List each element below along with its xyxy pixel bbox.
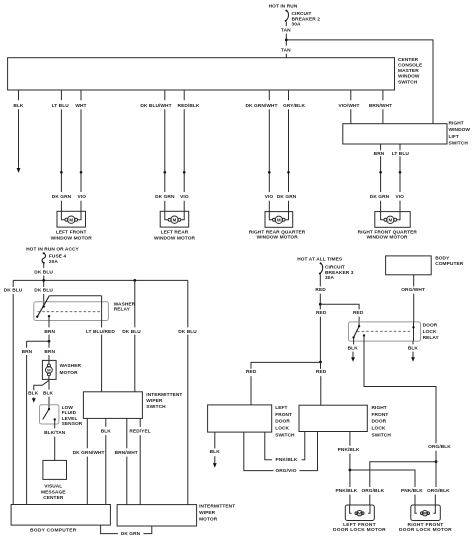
wire DK GRN/WHT wiper switch to body computer <box>73 418 105 504</box>
svg-text:PNK/BLK: PNK/BLK <box>276 457 298 463</box>
wire WHT / VIO to left front window motor <box>75 90 86 211</box>
wire PNK/BLK right switch to motors <box>335 432 423 506</box>
door lock relay output contact <box>363 334 365 336</box>
wire TAN to right window lift switch <box>286 40 433 124</box>
svg-text:SWITCH: SWITCH <box>398 79 418 85</box>
svg-text:DOOR LOCK MOTOR: DOOR LOCK MOTOR <box>333 527 386 533</box>
svg-text:30A: 30A <box>325 275 334 281</box>
svg-text:PNK/BLK: PNK/BLK <box>335 488 357 494</box>
svg-text:DK BLU: DK BLU <box>34 287 53 293</box>
motor: intermittent wiper motor box <box>117 505 197 526</box>
svg-text:LT BLU: LT BLU <box>52 103 70 109</box>
svg-text:LEFT: LEFT <box>275 405 287 411</box>
svg-text:DK BLU: DK BLU <box>4 287 23 293</box>
node HOT IN RUN label <box>269 4 298 10</box>
svg-text:RED: RED <box>353 310 364 316</box>
wire DK GRN/WHT / VIO to right rear quarter window motor <box>246 90 278 212</box>
svg-text:CIRCUIT: CIRCUIT <box>325 264 345 270</box>
circuit breaker 2 value label <box>292 11 321 27</box>
svg-text:WIPER: WIPER <box>199 510 216 516</box>
svg-text:ORG/BLK: ORG/BLK <box>361 488 384 494</box>
svg-text:WINDOW MOTOR: WINDOW MOTOR <box>257 235 299 241</box>
motor: left front door lock motor <box>345 505 374 521</box>
label washer relay <box>114 301 136 312</box>
washer relay dashed linkage <box>38 311 102 313</box>
svg-text:RED/BLK: RED/BLK <box>178 103 200 109</box>
svg-text:BODY COMPUTER: BODY COMPUTER <box>30 528 77 534</box>
svg-text:MOTOR: MOTOR <box>60 370 79 376</box>
svg-text:DOOR: DOOR <box>372 419 387 425</box>
svg-text:DOOR LOCK MOTOR: DOOR LOCK MOTOR <box>399 527 452 533</box>
svg-text:SWITCH: SWITCH <box>146 404 166 410</box>
svg-text:INTERMITTENT: INTERMITTENT <box>146 392 182 398</box>
svg-text:FUSE 4: FUSE 4 <box>49 254 67 260</box>
svg-text:LEFT FRONT: LEFT FRONT <box>56 230 87 236</box>
svg-text:TAN: TAN <box>281 27 291 33</box>
svg-text:M: M <box>388 218 392 223</box>
svg-text:SWITCH: SWITCH <box>372 432 392 438</box>
wire BLK wiper switch to body computer <box>101 418 112 504</box>
wire BLK washer motor to ground <box>28 379 49 398</box>
wire GRY/BLK / DK GRN to right rear quarter window motor <box>277 90 306 212</box>
svg-text:M: M <box>277 218 281 223</box>
wire BRN / DK GRN to right front quarter motor <box>370 144 390 212</box>
junction RED splice 1 <box>319 303 322 306</box>
switch: left front door lock switch box <box>208 405 272 432</box>
circuit breaker 2 symbol <box>285 10 289 22</box>
svg-text:RIGHT: RIGHT <box>372 405 387 411</box>
junction BRN splice <box>48 340 51 343</box>
svg-text:BLK: BLK <box>348 346 359 352</box>
svg-text:WINDOW: WINDOW <box>449 127 471 133</box>
svg-text:RED: RED <box>316 369 327 375</box>
svg-text:WINDOW: WINDOW <box>398 74 420 80</box>
svg-text:TAN: TAN <box>281 48 291 54</box>
svg-text:VIO: VIO <box>265 194 274 200</box>
svg-text:RED: RED <box>246 369 257 375</box>
svg-text:BRN: BRN <box>44 329 55 335</box>
wire RED to left front door lock switch <box>246 362 320 405</box>
wire BRN to washer motor <box>44 341 55 360</box>
switch: right window lift switch box <box>343 124 447 144</box>
wire LT BLU / VIO to right front quarter motor <box>392 144 410 212</box>
svg-text:BLK: BLK <box>28 391 39 397</box>
wire ORG/BLK to right door motor <box>427 462 450 505</box>
svg-text:BRN/WHT: BRN/WHT <box>115 450 138 456</box>
switch: intermittent wiper switch box <box>83 392 142 419</box>
junction ORG/BLK splice <box>435 460 438 463</box>
svg-text:LT BLU/RED: LT BLU/RED <box>86 329 115 335</box>
junction RED splice 2 <box>319 361 322 364</box>
wire RED to door lock relay <box>320 304 364 326</box>
motor: right front door lock motor <box>411 505 441 521</box>
svg-text:BLK: BLK <box>43 391 54 397</box>
svg-text:BRN: BRN <box>44 349 55 355</box>
motor M3 right rear quarter window motor <box>265 212 293 228</box>
wire DK BLU branch to wiper switch <box>122 280 141 391</box>
label body computer top right <box>435 255 464 266</box>
motor M2 left rear window motor <box>160 211 189 227</box>
door lock relay contact arm <box>352 325 360 339</box>
svg-text:DK GRN/WHT: DK GRN/WHT <box>246 103 278 109</box>
door lock relay dashed linkage <box>357 330 411 332</box>
svg-text:FRONT: FRONT <box>372 412 389 418</box>
wire DK BLU fuse to bus <box>34 264 53 281</box>
svg-text:DK GRN: DK GRN <box>370 194 390 200</box>
wire RED to right front door lock switch <box>316 362 327 405</box>
junction dk blu bus branch <box>133 279 136 282</box>
svg-text:M: M <box>173 217 177 222</box>
wire ORG/VIO jog between switches <box>244 432 318 475</box>
svg-text:RELAY: RELAY <box>423 335 440 341</box>
svg-text:ORG/BLK: ORG/BLK <box>427 488 450 494</box>
svg-text:VIO: VIO <box>395 194 404 200</box>
svg-text:BLK: BLK <box>210 449 221 455</box>
wire BLK washer motor to sensor <box>43 379 54 404</box>
wire DK BLU bus horizontal <box>13 279 188 281</box>
sensor: low fluid level sensor box <box>40 405 59 424</box>
svg-text:BLK: BLK <box>13 103 24 109</box>
label left front door lock switch <box>275 405 295 439</box>
svg-text:FRONT: FRONT <box>275 412 292 418</box>
label right front door lock motor <box>399 522 452 533</box>
svg-text:DK GRN: DK GRN <box>121 531 141 537</box>
wire DK BLU left drop to body computer <box>4 280 23 504</box>
label visual message center <box>41 484 66 501</box>
label center console master window switch <box>398 57 423 85</box>
svg-text:MESSAGE: MESSAGE <box>41 489 66 495</box>
label right front quarter window motor <box>358 229 418 240</box>
svg-text:DK BLU: DK BLU <box>178 329 197 335</box>
svg-text:RELAY: RELAY <box>114 307 131 313</box>
svg-text:LOW: LOW <box>62 405 74 411</box>
wire BRN/WHT wiper switch to wiper motor <box>115 418 138 504</box>
svg-text:DK GRN: DK GRN <box>277 194 297 200</box>
svg-text:LT BLU: LT BLU <box>392 151 410 157</box>
svg-text:WINDOW MOTOR: WINDOW MOTOR <box>366 235 408 241</box>
fuse 4 symbol <box>42 252 46 264</box>
svg-text:RED: RED <box>316 310 327 316</box>
wire ORG/BLK branch to left door motor <box>361 462 436 505</box>
svg-text:RIGHT FRONT: RIGHT FRONT <box>407 522 443 528</box>
svg-text:SWITCH: SWITCH <box>449 140 469 146</box>
wire DK BLU into washer relay <box>34 280 53 306</box>
svg-text:CONSOLE: CONSOLE <box>398 63 423 69</box>
svg-text:LIFT: LIFT <box>449 134 459 140</box>
svg-text:M: M <box>358 512 361 516</box>
svg-text:BODY: BODY <box>435 255 450 261</box>
svg-text:CIRCUIT: CIRCUIT <box>292 11 312 17</box>
svg-text:BLK: BLK <box>101 429 112 435</box>
svg-text:DK BLU: DK BLU <box>34 270 53 276</box>
svg-text:RIGHT FRONT QUARTER: RIGHT FRONT QUARTER <box>358 229 418 235</box>
svg-text:HOT IN RUN OR ACCY: HOT IN RUN OR ACCY <box>26 246 79 252</box>
svg-text:RED/YEL: RED/YEL <box>129 429 150 435</box>
svg-text:SWITCH: SWITCH <box>275 433 295 439</box>
junction TAN bus <box>285 39 288 42</box>
svg-text:CENTER: CENTER <box>43 495 64 501</box>
wire TAN breaker2 to master switch <box>281 22 291 58</box>
label washer motor <box>60 363 82 376</box>
label right rear quarter window motor <box>249 229 306 240</box>
svg-text:RIGHT REAR QUARTER: RIGHT REAR QUARTER <box>249 229 306 235</box>
svg-text:VIO: VIO <box>78 194 87 200</box>
label intermittent wiper motor <box>199 504 235 523</box>
label left front door lock motor <box>333 522 386 533</box>
label left front window motor <box>51 230 93 242</box>
motor M1 left front window motor <box>57 211 86 227</box>
ground arrow master switch BLK <box>17 168 21 173</box>
wire BRN branch horizontal <box>27 340 49 342</box>
svg-text:RIGHT: RIGHT <box>449 121 464 127</box>
svg-text:WASHER: WASHER <box>114 301 136 307</box>
label door lock relay <box>423 323 440 342</box>
svg-text:WINDOW MOTOR: WINDOW MOTOR <box>51 235 93 241</box>
svg-text:DOOR: DOOR <box>423 323 438 329</box>
wire BLK from master switch <box>13 90 24 168</box>
svg-text:LOCK: LOCK <box>275 426 289 432</box>
switch: right front door lock switch box <box>299 405 367 431</box>
ground arrow washer motor <box>32 398 36 403</box>
washer relay contact arm <box>36 296 49 318</box>
wire RED/YEL wiper switch to wiper motor <box>129 418 150 504</box>
wire RED/BLK / VIO to left rear window motor <box>178 90 200 211</box>
svg-text:BREAKER 2: BREAKER 2 <box>292 16 321 22</box>
svg-text:DOOR: DOOR <box>275 419 290 425</box>
svg-text:M: M <box>424 512 427 516</box>
svg-text:30A: 30A <box>292 22 301 28</box>
wire DK GRN body computer to wiper motor <box>101 525 152 537</box>
svg-text:CENTER: CENTER <box>398 57 419 63</box>
svg-text:HOT AT ALL TIMES: HOT AT ALL TIMES <box>297 256 343 262</box>
svg-text:COMPUTER: COMPUTER <box>435 261 464 267</box>
svg-text:LEFT REAR: LEFT REAR <box>161 230 189 236</box>
svg-text:BRN: BRN <box>22 349 33 355</box>
svg-text:20A: 20A <box>49 259 58 265</box>
svg-text:VIO: VIO <box>180 194 189 200</box>
wire BLK relay left to ground <box>348 337 359 361</box>
svg-text:LOCK: LOCK <box>372 426 386 432</box>
svg-text:MASTER: MASTER <box>398 68 419 74</box>
svg-text:BRN/WHT: BRN/WHT <box>369 103 392 109</box>
svg-text:FLUID: FLUID <box>62 410 77 416</box>
junction dk blu bus at fuse <box>42 279 45 282</box>
svg-text:VIO/WHT: VIO/WHT <box>338 103 359 109</box>
wire RED breaker3 down <box>315 275 326 305</box>
switch: center console master window switch box <box>8 58 395 90</box>
low fluid level sensor contacts <box>43 405 56 421</box>
svg-text:ORG/VIO: ORG/VIO <box>275 468 296 474</box>
washer relay BRN contact <box>44 315 55 341</box>
svg-text:MOTOR: MOTOR <box>199 516 218 522</box>
svg-text:BLK: BLK <box>408 346 419 352</box>
body computer box top right <box>386 256 432 275</box>
motor washer motor <box>42 360 56 379</box>
label low fluid level sensor <box>62 405 83 427</box>
body computer box bottom left <box>11 505 110 526</box>
svg-text:DK BLU/WHT: DK BLU/WHT <box>140 103 171 109</box>
svg-text:DK GRN/WHT: DK GRN/WHT <box>73 450 105 456</box>
wire RED down to switches <box>316 304 327 362</box>
svg-text:HOT IN RUN: HOT IN RUN <box>269 4 298 10</box>
washer relay output line to LT BLU/RED <box>49 295 101 297</box>
wire BLK relay right to ground <box>408 341 419 362</box>
svg-text:ORG/WHT: ORG/WHT <box>401 287 425 293</box>
svg-text:LOCK: LOCK <box>423 329 437 335</box>
visual message center box <box>43 460 67 479</box>
svg-text:M: M <box>69 217 73 222</box>
fuse 4 value label <box>49 254 67 266</box>
wire DK BLU/WHT / DK GRN to left rear window motor <box>140 90 175 211</box>
svg-text:LEFT FRONT: LEFT FRONT <box>343 522 376 528</box>
wire BRN/WHT to lift switch <box>369 90 392 124</box>
wire LT BLU/RED relay to wiper switch <box>86 296 115 392</box>
svg-text:BRN: BRN <box>374 151 385 157</box>
motor M4 right front quarter window motor <box>375 212 410 228</box>
wire ORG/BLK relay to motors <box>364 336 451 462</box>
wire BLK left switch to ground <box>210 432 221 468</box>
svg-text:GRY/BLK: GRY/BLK <box>283 103 305 109</box>
svg-text:WHT: WHT <box>75 103 86 109</box>
svg-text:DK GRN: DK GRN <box>52 194 72 200</box>
svg-text:BLK/TAN: BLK/TAN <box>44 430 66 436</box>
wire VIO/WHT to lift switch <box>338 90 359 124</box>
svg-text:ORG/BLK: ORG/BLK <box>428 444 451 450</box>
svg-text:RED: RED <box>315 287 326 293</box>
label intermittent wiper switch <box>146 392 182 410</box>
relay: door lock relay box <box>349 322 421 341</box>
wire BLK/TAN sensor to visual message center <box>44 420 66 461</box>
circuit breaker 3 value label <box>325 264 354 280</box>
svg-text:WIPER: WIPER <box>146 398 163 404</box>
svg-text:WINDOW MOTOR: WINDOW MOTOR <box>154 235 196 241</box>
relay: washer relay box <box>34 302 109 321</box>
label left rear window motor <box>154 230 196 242</box>
wire ORG/WHT body computer to relay coil <box>401 275 425 341</box>
svg-text:PNK/BLK: PNK/BLK <box>338 447 360 453</box>
wire BRN left to body computer <box>22 341 33 504</box>
circuit breaker 3 symbol <box>319 262 323 274</box>
svg-text:DK BLU: DK BLU <box>122 329 141 335</box>
svg-text:WASHER: WASHER <box>60 363 82 369</box>
wire PNK/BLK jog between switches <box>265 432 305 464</box>
wire DK BLU right drop to wiper motor <box>178 280 197 504</box>
label right window lift switch <box>449 121 471 147</box>
wire LT BLU / DK GRN to left front window motor <box>52 90 72 211</box>
svg-text:SENSOR: SENSOR <box>62 421 83 427</box>
svg-text:PNK/BLK: PNK/BLK <box>401 488 423 494</box>
svg-text:DK GRN: DK GRN <box>155 194 175 200</box>
svg-text:VISUAL: VISUAL <box>44 484 62 490</box>
svg-text:INTERMITTENT: INTERMITTENT <box>199 504 235 510</box>
label right front door lock switch <box>372 405 392 438</box>
